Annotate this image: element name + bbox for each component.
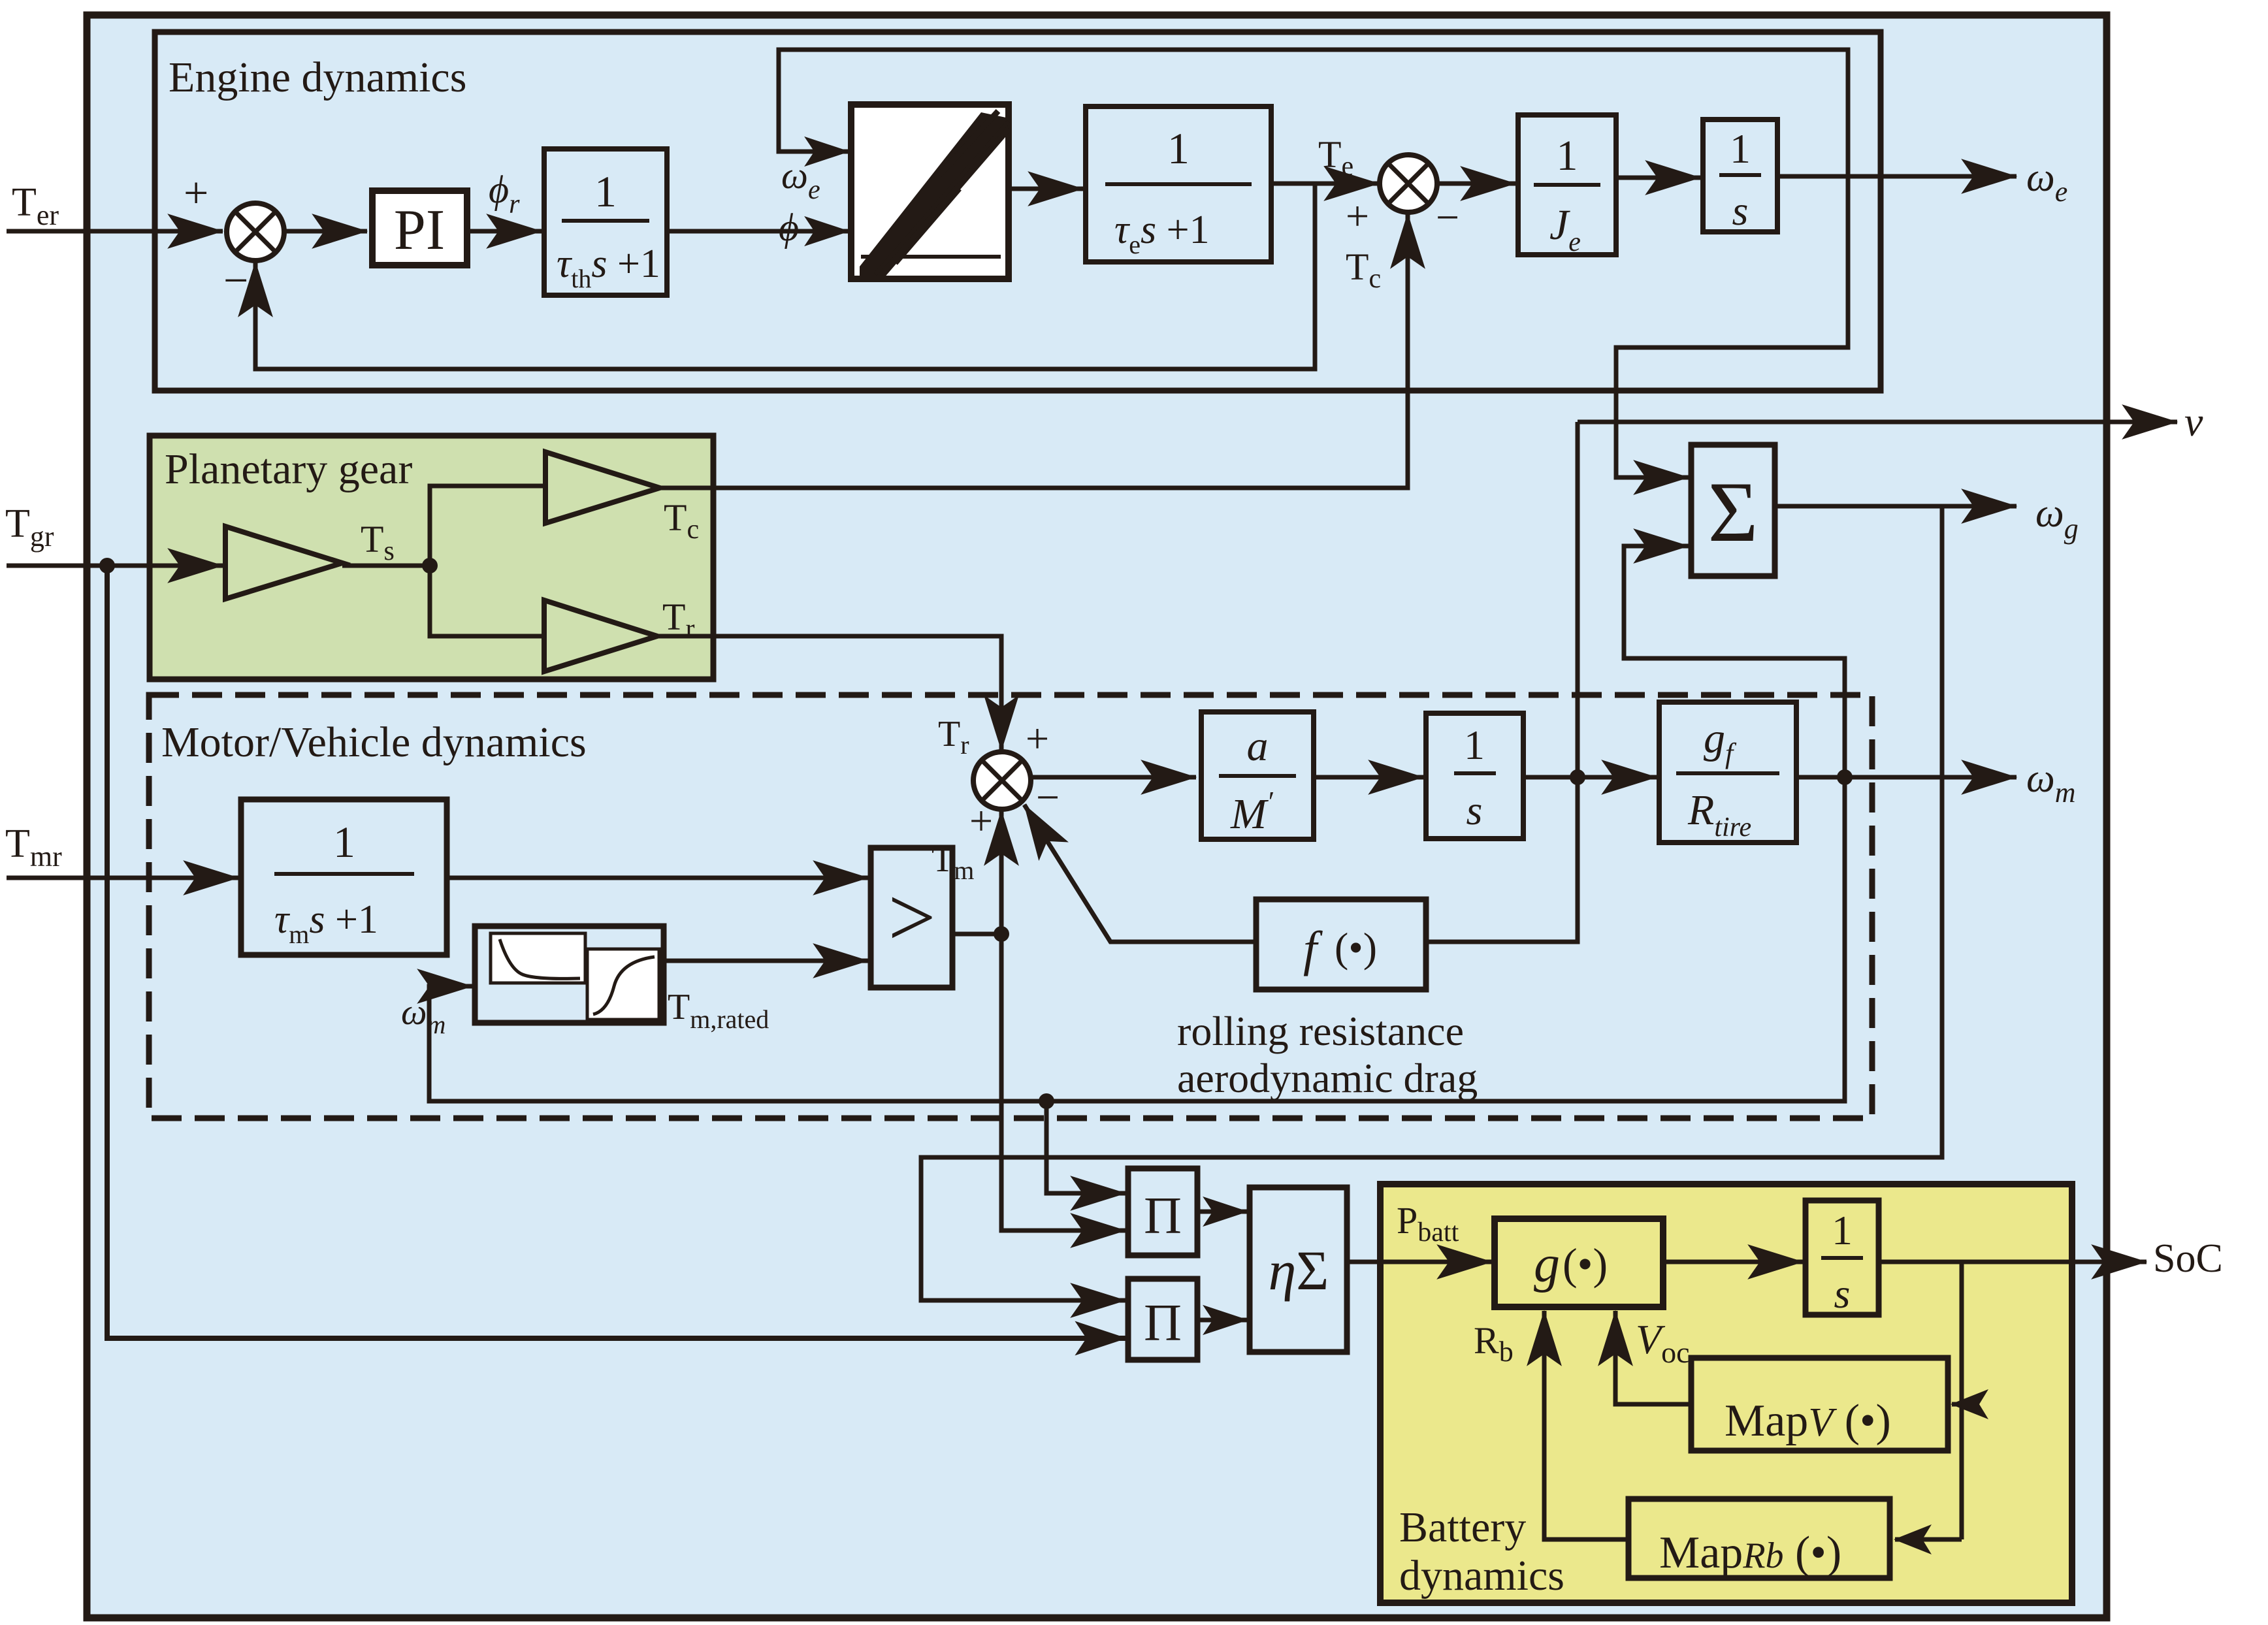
wire SoC feedback down [1960,1262,1964,1539]
wire g to 1/s battery [1663,1260,1803,1264]
wire omega_m output [1796,775,2017,780]
svg-text:1: 1 [1730,125,1751,172]
svg-text:Σ: Σ [1708,464,1758,560]
wire f output diagonal to S3 [1024,805,1256,942]
block P1 product [1128,1168,1197,1255]
wire a/M to 1/s [1314,775,1423,780]
node Tgr tap [99,558,115,573]
wire omega_g output [1775,504,2017,509]
block gf/Rtire [1659,702,1796,843]
wire SoC output [1879,1260,2146,1264]
svg-text:Motor/Vehicle dynamics: Motor/Vehicle dynamics [161,718,587,766]
wire Sigma lower input from omega_m [1624,546,1845,777]
wire Ts split [430,486,543,566]
block MapV [1691,1358,1948,1451]
svg-text:MapRb (•): MapRb (•) [1659,1528,1841,1578]
summing junction S2 [1380,155,1437,212]
svg-text:1: 1 [333,817,355,867]
node Tm [994,926,1009,942]
svg-text:g: g [1534,1236,1560,1293]
block 1/Je [1518,115,1616,257]
wire Te to summing junction S2 [1271,182,1379,186]
wire omega_g tap down [921,506,1942,1300]
svg-text:SoC: SoC [2153,1236,2223,1281]
block 1/(tau_e s+1) [1086,106,1271,262]
svg-text:1: 1 [1557,132,1578,180]
wire omega_m feedback down [429,777,1845,1101]
battery dynamics box [1380,1184,2072,1603]
block f rolling resistance [1256,899,1426,989]
gain triangle sun [225,526,342,599]
summing junction S3 [973,752,1031,809]
wire omega_e feedback to map [779,50,1848,176]
block Sigma [1691,445,1775,576]
wire omega_m tap to P1 [1046,1101,1126,1193]
wire Tr to S3 [657,636,1001,750]
wire P1 to etaSigma [1197,1210,1247,1214]
svg-text:dynamics: dynamics [1399,1552,1564,1600]
svg-text:(•): (•) [1563,1239,1608,1289]
wire v tap up [1576,422,1580,777]
planetary gear box [150,436,713,679]
block max [871,848,952,988]
svg-text:1: 1 [1832,1207,1853,1253]
wire Te feedback to S1 [255,184,1315,369]
wire Tgr input [7,564,223,568]
block engine map [851,105,1009,279]
wire etaSigma to g [1347,1260,1492,1264]
svg-text:rolling resistance: rolling resistance [1177,1008,1464,1054]
block 1/(tau_m s+1) [241,799,447,955]
svg-text:τes +1: τes +1 [1114,208,1210,259]
wire Tc to S2 [660,214,1408,488]
gain triangle carrier Tc [545,452,660,523]
wire 1/Je to 1/s [1616,176,1700,180]
node omega_m tap [1837,769,1853,785]
wire Tmr input [7,876,238,880]
svg-text:a: a [1247,722,1269,770]
svg-text:+: + [1026,715,1049,762]
wire SoC to MapV [1952,1402,1962,1407]
wire Ts [342,564,430,568]
wire 1/s to gf/Rtire [1523,775,1657,780]
wire PI to throttle block [470,229,542,234]
wire tau_m to max block [447,876,868,880]
svg-text:(•): (•) [1335,924,1377,971]
summing junction S1 [227,203,284,261]
svg-text:aerodynamic drag: aerodynamic drag [1177,1055,1478,1101]
block 1/s vehicle [1426,713,1523,839]
svg-text:+: + [1346,193,1369,239]
wire omega_e output [1777,174,2017,179]
svg-text:Battery: Battery [1399,1504,1526,1551]
node omega_m to P1 tap [1039,1093,1054,1109]
svg-text:ϕ: ϕ [779,206,799,249]
block P2 product [1128,1279,1197,1360]
wire SoC to MapRb [1895,1537,1962,1542]
wire max out to Tm node [952,932,1001,937]
svg-text:−: − [1436,194,1459,240]
wire S3 to a/M [1029,775,1196,780]
svg-text:MapV (•): MapV (•) [1725,1396,1891,1446]
svg-text:Planetary gear: Planetary gear [165,445,412,493]
block a/M [1201,712,1314,839]
block motor torque map [475,926,664,1023]
wire Voc [1615,1311,1691,1404]
wire Tgr tap to P2 [107,566,1126,1338]
wire Ts split lower [430,566,542,636]
block etaSigma [1250,1187,1347,1352]
node Ts [422,558,438,573]
svg-text:PI: PI [394,199,445,262]
wire omega_e tap down to Sigma [1616,176,1848,477]
engine dynamics box [155,32,1881,391]
wire throttle to map (phi) [667,229,849,234]
block 1/(tau_th s+1) [544,149,667,295]
wire Ter input [7,229,223,234]
svg-text:1: 1 [594,167,617,216]
wire v tap down to f [1426,777,1578,942]
svg-text:s: s [1466,787,1483,833]
svg-text:+: + [969,797,993,844]
svg-text:1: 1 [1167,123,1190,173]
wire S2 to 1/Je [1435,182,1515,186]
svg-text:−: − [223,255,248,305]
svg-text:s: s [1834,1270,1851,1317]
svg-text:v: v [2184,398,2203,445]
wire Tm down to P1 [1001,934,1126,1231]
node v tap [1570,769,1585,785]
svg-text:>: > [888,871,935,965]
motor vehicle dynamics dashed box [149,695,1872,1118]
block g battery [1495,1219,1663,1307]
wire P2 to etaSigma [1197,1318,1247,1323]
wire S1 to PI [282,229,367,234]
svg-text:ηΣ: ηΣ [1269,1239,1329,1302]
gain triangle ring Tr [544,600,657,671]
wire map to tau_e block [1009,187,1083,191]
wire Tm up to S3 [999,811,1004,934]
svg-text:Π: Π [1144,1295,1182,1352]
wire Rb [1544,1311,1628,1539]
svg-text:+: + [184,168,208,217]
block 1/s battery [1806,1200,1879,1317]
wire map to max block [664,959,868,963]
svg-text:Π: Π [1144,1187,1182,1245]
block MapRb [1628,1499,1890,1578]
svg-text:1: 1 [1464,722,1485,768]
svg-text:Engine dynamics: Engine dynamics [169,54,466,101]
block PI [372,191,467,265]
svg-text:−: − [1036,774,1060,820]
wire v output [1578,420,2177,425]
block 1/s engine [1703,120,1777,234]
svg-text:s: s [1732,187,1749,234]
